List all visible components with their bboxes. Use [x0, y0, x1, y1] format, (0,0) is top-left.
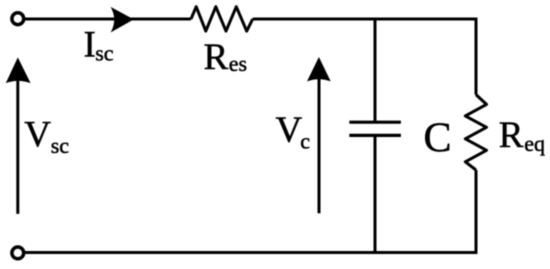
- svg-text:eq: eq: [524, 131, 545, 156]
- svg-text:R: R: [499, 115, 524, 156]
- svg-text:sc: sc: [95, 41, 114, 66]
- svg-text:C: C: [424, 115, 452, 161]
- svg-text:c: c: [300, 129, 310, 154]
- svg-text:I: I: [84, 24, 96, 65]
- svg-text:V: V: [276, 110, 303, 151]
- svg-text:sc: sc: [51, 133, 70, 158]
- svg-text:R: R: [204, 37, 229, 78]
- svg-text:V: V: [24, 115, 51, 156]
- svg-text:es: es: [229, 51, 247, 76]
